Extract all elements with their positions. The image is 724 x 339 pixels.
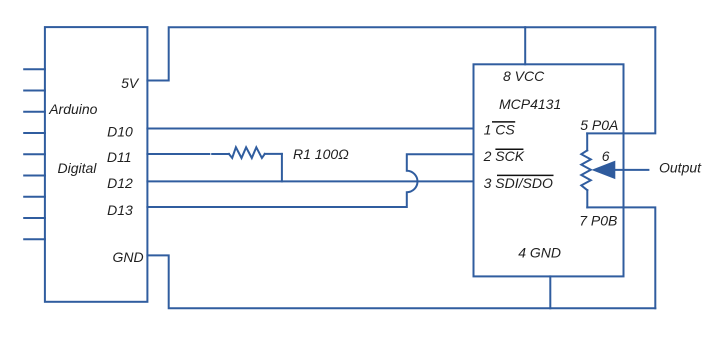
label Arduino bbox=[48, 101, 97, 117]
wire ground bus up to MCP4131 pin 4 GND bbox=[549, 276, 551, 308]
wire D12 to pin 3 SDI/SDO bbox=[147, 180, 473, 182]
pin label 7 P0B bbox=[579, 212, 617, 228]
svg-text:7 P0B: 7 P0B bbox=[579, 212, 617, 228]
label Output bbox=[659, 159, 702, 175]
resistor R1 bbox=[212, 147, 282, 158]
svg-text:2 SCK: 2 SCK bbox=[483, 148, 525, 164]
wire 5V to top VCC rail bbox=[147, 27, 655, 80]
wire pin 5 P0A to VCC rail bbox=[587, 27, 655, 133]
svg-text:R1 100Ω: R1 100Ω bbox=[293, 146, 349, 162]
pin label D11 bbox=[107, 149, 132, 165]
label MCP4131 bbox=[499, 96, 561, 112]
header pin stub 6 bbox=[24, 175, 45, 177]
header pin stub 9 bbox=[24, 238, 45, 240]
svg-text:Output: Output bbox=[659, 159, 702, 175]
svg-text:5 P0A: 5 P0A bbox=[580, 117, 618, 133]
svg-text:8 VCC: 8 VCC bbox=[503, 68, 545, 84]
svg-text:D13: D13 bbox=[107, 202, 133, 218]
svg-text:D10: D10 bbox=[107, 123, 133, 139]
header pin stub 3 bbox=[24, 111, 45, 113]
potentiometer element (pin5 to pin7) bbox=[581, 133, 591, 207]
wire D10 to pin 1 CS bbox=[147, 128, 473, 130]
svg-text:4 GND: 4 GND bbox=[518, 245, 561, 261]
header pin stub 2 bbox=[24, 90, 45, 92]
pin label 1 CS (overlined) bbox=[484, 122, 516, 138]
label R1 100Ω bbox=[293, 146, 349, 162]
pin label 2 SCK (overlined) bbox=[483, 148, 525, 164]
pin label D13 bbox=[107, 202, 133, 218]
wire R1 down to SDI line bbox=[281, 154, 283, 182]
wire pin 7 P0B to ground bus bbox=[587, 207, 655, 308]
pin label 5 P0A bbox=[580, 117, 618, 133]
svg-text:D11: D11 bbox=[107, 149, 132, 165]
svg-text:Digital: Digital bbox=[58, 160, 98, 176]
Arduino module box bbox=[45, 27, 147, 302]
svg-text:5V: 5V bbox=[121, 75, 140, 91]
wire D13 to pin 2 SCK with hop over SDI line bbox=[147, 154, 473, 207]
pin label 6 bbox=[602, 148, 610, 164]
label Digital bbox=[58, 160, 98, 176]
svg-text:MCP4131: MCP4131 bbox=[499, 96, 561, 112]
svg-text:3 SDI/SDO: 3 SDI/SDO bbox=[484, 175, 553, 191]
pin label 8 VCC bbox=[503, 68, 545, 84]
pin label 4 GND bbox=[518, 245, 561, 261]
wire GND to bottom ground bus bbox=[147, 255, 655, 308]
svg-text:D12: D12 bbox=[107, 175, 133, 191]
wire VCC rail drop to MCP4131 top bbox=[524, 27, 526, 64]
pin label 3 SDI/SDO (overlined) bbox=[484, 175, 554, 191]
IC U1 MCP4131 box bbox=[474, 64, 624, 276]
header pin stub 4 bbox=[24, 132, 45, 134]
wiper arrow pin 6 bbox=[594, 162, 648, 178]
header pin stub 1 bbox=[24, 68, 45, 70]
svg-text:6: 6 bbox=[602, 148, 610, 164]
header pin stub 7 bbox=[24, 196, 45, 198]
pin label 5V bbox=[121, 75, 140, 91]
pin label GND bbox=[112, 249, 143, 265]
wire D11 to resistor R1 bbox=[147, 153, 209, 155]
svg-text:GND: GND bbox=[112, 249, 143, 265]
svg-text:Arduino: Arduino bbox=[48, 101, 97, 117]
header pin stub 5 bbox=[24, 153, 45, 155]
header pin stub 8 bbox=[24, 217, 45, 219]
svg-text:1 CS: 1 CS bbox=[484, 122, 516, 138]
pin label D10 bbox=[107, 123, 133, 139]
pin label D12 bbox=[107, 175, 133, 191]
